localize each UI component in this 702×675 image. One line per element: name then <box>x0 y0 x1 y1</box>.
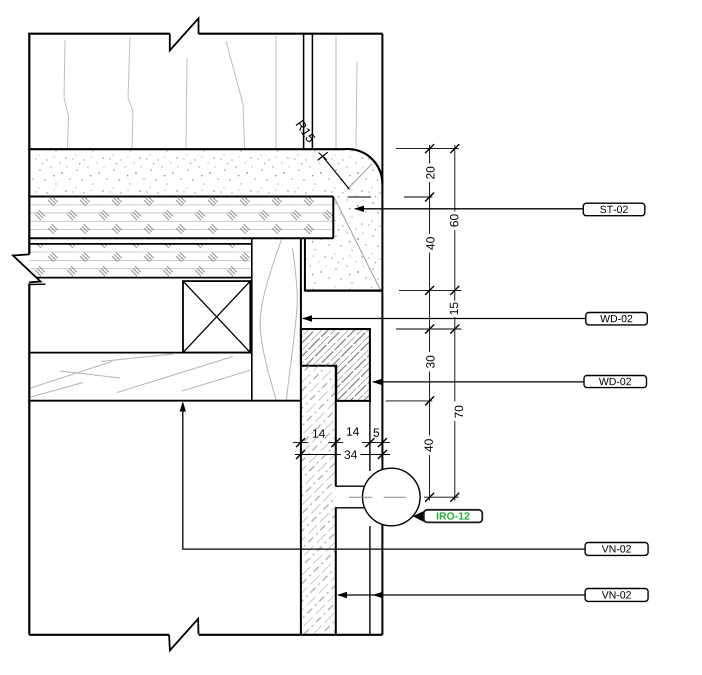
left border with break <box>28 34 30 635</box>
extension line block bottom <box>386 400 433 402</box>
stone countertop ST-02 stipple fill <box>29 149 382 291</box>
inner face line x301 <box>300 238 302 635</box>
vertical wood post grain <box>260 240 297 401</box>
dim text 14 right <box>347 427 359 435</box>
dim text 40 lower <box>424 439 432 452</box>
dowel stem <box>335 486 366 508</box>
dim text 70 <box>455 406 463 418</box>
top panel edge strip lines <box>304 34 313 150</box>
dim text 40 upper <box>426 237 434 250</box>
chain B ticks <box>450 144 459 502</box>
R15 text <box>296 120 316 143</box>
stone inner vertical edge <box>304 238 306 291</box>
dim text 20 <box>426 167 434 179</box>
bottom break zigzag <box>169 619 198 651</box>
stone top edge and bullnose arc <box>28 149 382 184</box>
wood post edges <box>251 238 253 400</box>
lower wood rail grain <box>31 354 252 397</box>
laminate board WD lower slash texture <box>30 244 252 277</box>
extension line laminate top <box>348 196 433 198</box>
dowel center line <box>349 496 406 498</box>
extension line block top <box>396 328 462 330</box>
dimension chain B line <box>454 145 456 501</box>
leader VN-02 upper <box>180 402 585 550</box>
dim text 5 <box>373 428 379 436</box>
laminate board upper outline <box>28 197 333 239</box>
dimension chain A line <box>429 145 431 501</box>
veneer strip VN-02 right edge <box>335 366 337 635</box>
dowel head circle IRO-12 <box>363 468 421 526</box>
stone bottom edge <box>305 290 383 292</box>
main right face line <box>381 34 383 635</box>
extension line stone bottom <box>399 289 462 291</box>
stone corner radius line <box>347 164 372 189</box>
label VN-02 lower <box>585 589 648 602</box>
leader arrow IRO-12 <box>413 511 425 523</box>
laminate board lower outline <box>28 244 252 278</box>
dim text 30 <box>426 356 434 368</box>
dim text 60 <box>450 214 458 226</box>
label WD-02 upper <box>586 313 648 325</box>
label WD-02 lower <box>584 376 647 388</box>
dim text 34 <box>344 450 357 458</box>
leader VN-02 lower <box>337 592 585 598</box>
label VN-02 upper <box>585 543 648 556</box>
chain A ticks <box>425 144 434 502</box>
R15 radius leader <box>318 152 350 189</box>
veneer strip VN-02 hatched <box>301 366 336 635</box>
panel edge line x370 <box>369 329 371 635</box>
dim text 14 left <box>313 429 325 437</box>
label ST-02 <box>583 203 645 216</box>
cross blocking box <box>183 281 250 353</box>
laminate board WD upper horizontal grain lines <box>30 205 334 230</box>
extension line stone top <box>396 148 459 150</box>
lower wood rail outline <box>28 353 301 401</box>
laminate board WD lower horizontal grain lines <box>30 252 252 269</box>
laminate board WD upper slash texture <box>30 197 334 238</box>
bottom dim row 2 line <box>295 454 390 456</box>
leader ST-02 <box>354 206 583 212</box>
bottom dim row 1 ticks <box>296 438 387 447</box>
dim text 15 <box>450 302 458 314</box>
wood blocking WD-02 hatched block <box>301 329 370 401</box>
bottom dim row 2 ticks <box>296 450 387 459</box>
top edge with break <box>28 33 382 35</box>
leader WD-02 upper <box>302 315 586 321</box>
extension line dowel axis <box>424 496 459 498</box>
stone miter joint line <box>334 198 381 292</box>
bottom dim row 1 line segments <box>293 442 390 444</box>
top wood panel grain <box>64 36 357 148</box>
top break zigzag <box>170 18 199 50</box>
label IRO-12 <box>424 510 483 523</box>
bottom edge with break <box>29 634 382 636</box>
left break zigzag <box>13 254 46 284</box>
leader WD-02 lower <box>372 379 584 385</box>
